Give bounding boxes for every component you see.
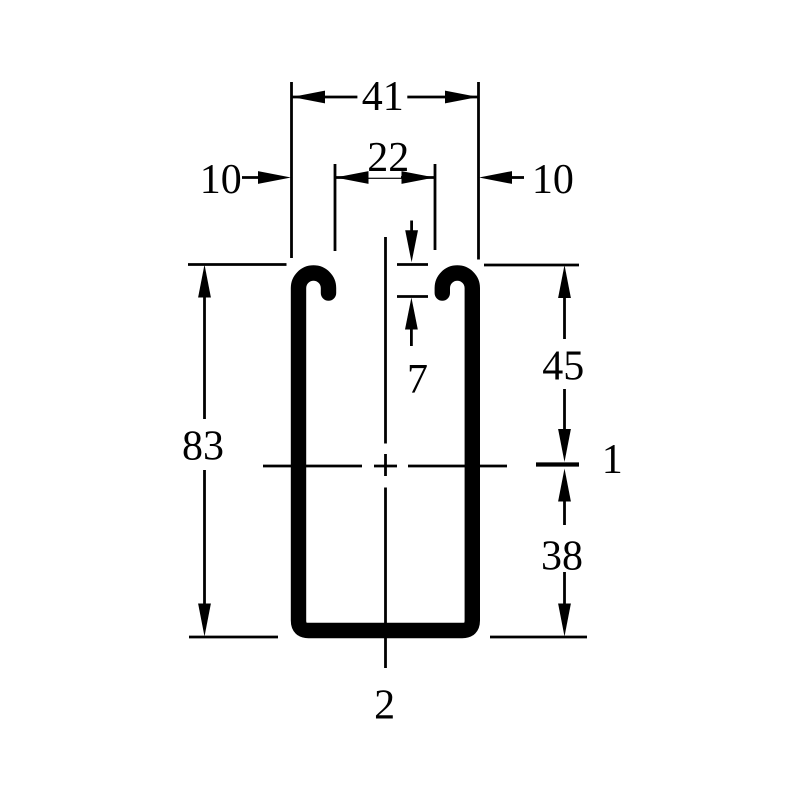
svg-text:10: 10 — [532, 157, 574, 203]
svg-text:10: 10 — [200, 157, 242, 203]
svg-text:22: 22 — [367, 135, 409, 181]
svg-text:45: 45 — [542, 344, 584, 390]
svg-text:1: 1 — [602, 437, 623, 483]
svg-text:38: 38 — [541, 534, 583, 580]
svg-text:2: 2 — [374, 683, 395, 729]
svg-text:83: 83 — [182, 424, 224, 470]
svg-text:7: 7 — [407, 357, 428, 403]
svg-text:41: 41 — [362, 74, 404, 120]
